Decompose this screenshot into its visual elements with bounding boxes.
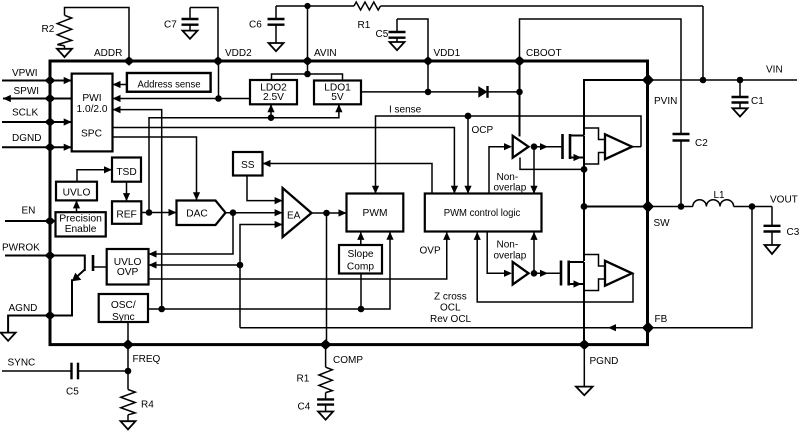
wire buffer bottom to SW node xyxy=(520,158,584,170)
svg-text:C6: C6 xyxy=(249,20,262,31)
ground below C7 xyxy=(183,31,198,39)
wire SS to EA xyxy=(247,176,283,205)
svg-text:UVLO: UVLO xyxy=(63,188,91,199)
svg-text:VIN: VIN xyxy=(766,65,783,76)
svg-text:OCL: OCL xyxy=(440,303,461,314)
capacitor C5 (top) xyxy=(376,19,429,61)
node buffer output xyxy=(531,143,538,150)
svg-text:Non-: Non- xyxy=(497,240,519,251)
svg-text:OVP: OVP xyxy=(117,267,139,278)
wire REF enable to LDO bottoms xyxy=(149,104,343,212)
svg-text:C7: C7 xyxy=(164,20,177,31)
wire buffer feedback to control (low) xyxy=(530,232,537,273)
PVIN pin xyxy=(642,74,677,107)
node VIN/rail xyxy=(700,77,707,84)
high-side driver: wire control to buffer xyxy=(489,147,504,194)
left pin SPWI (output arrow) xyxy=(3,86,72,103)
node AVIN internal junction xyxy=(304,71,311,78)
svg-text:REF: REF xyxy=(116,210,136,221)
svg-text:EN: EN xyxy=(22,206,36,217)
block DAC xyxy=(177,201,226,226)
amp U5 (low-side sense) xyxy=(605,261,632,286)
svg-text:VDD2: VDD2 xyxy=(225,48,252,59)
svg-text:SPC: SPC xyxy=(81,129,102,140)
capacitor C7 xyxy=(164,8,218,62)
svg-text:1.0/2.0: 1.0/2.0 xyxy=(77,104,108,115)
wire low source to PGND xyxy=(583,284,585,345)
svg-text:Z cross: Z cross xyxy=(434,291,467,302)
wire OSC vertical to PWI xyxy=(113,106,162,309)
svg-text:R1: R1 xyxy=(358,20,371,31)
transistor Q3 (low-side FET) xyxy=(561,261,584,288)
inductor L1 xyxy=(693,190,734,207)
svg-text:Address sense: Address sense xyxy=(138,80,201,91)
svg-text:C1: C1 xyxy=(751,96,764,107)
svg-text:5V: 5V xyxy=(331,92,344,103)
block UVLO OVP xyxy=(107,249,149,285)
resistor R2 xyxy=(42,8,130,62)
svg-text:SS: SS xyxy=(241,160,255,171)
block LDO2 2.5V xyxy=(250,80,297,104)
resistor R1 (comp) xyxy=(297,345,333,393)
pin PWROK xyxy=(2,243,56,261)
wire REF to DAC xyxy=(141,209,176,216)
svg-text:Comp: Comp xyxy=(347,262,375,273)
VDD1 pin xyxy=(423,48,461,66)
pin FB xyxy=(642,314,668,334)
svg-text:COMP: COMP xyxy=(333,355,363,366)
transistor Q1 (PWROK open drain) xyxy=(50,255,107,316)
svg-text:R2: R2 xyxy=(42,24,55,35)
left pin DGND xyxy=(2,133,72,152)
CBOOT pin and bootstrap rail to C2 xyxy=(514,19,682,134)
resistor R1 (top) xyxy=(308,2,704,31)
wire SW to L1 xyxy=(648,206,693,208)
wire DAC node to UVLO OVP xyxy=(149,213,234,258)
node SW/high source xyxy=(581,166,588,173)
wire OSC output to PWM xyxy=(148,232,394,313)
svg-text:VOUT: VOUT xyxy=(770,195,798,206)
block Precision Enable xyxy=(56,212,106,236)
wire staircase to sense amp (low) xyxy=(584,255,605,291)
non-overlap label (high) xyxy=(494,172,527,194)
block UVLO xyxy=(56,182,97,201)
wire LDO1 to diode to CBOOT xyxy=(361,61,478,95)
pin PGND xyxy=(578,339,618,367)
wire SPC bus B to DAC xyxy=(113,137,201,200)
svg-text:FB: FB xyxy=(655,314,668,325)
wire top rail down to VIN xyxy=(702,6,704,80)
wire Slope Comp bottom to OSC line xyxy=(360,274,362,310)
block TSD xyxy=(112,158,141,182)
svg-text:DAC: DAC xyxy=(186,209,208,220)
capacitor C2 xyxy=(673,134,709,207)
svg-text:CBOOT: CBOOT xyxy=(526,48,562,59)
svg-text:OSC/: OSC/ xyxy=(111,300,136,311)
ground below C6 xyxy=(269,43,284,51)
left pin SCLK xyxy=(2,108,72,127)
capacitor C4 xyxy=(298,393,335,413)
svg-text:AVIN: AVIN xyxy=(314,48,337,59)
svg-text:PWM control logic: PWM control logic xyxy=(444,208,521,219)
buffer U2 (high-side) xyxy=(513,136,529,158)
node top rail junction xyxy=(304,3,310,9)
svg-text:C2: C2 xyxy=(695,138,708,149)
wire VDD2 to PWI/LDO2 supply line xyxy=(113,61,251,102)
wire EA to PWM xyxy=(312,209,347,216)
svg-text:Slope: Slope xyxy=(347,249,373,260)
svg-text:PWM: PWM xyxy=(363,208,388,219)
amp U3 (high-side sense) xyxy=(605,134,632,159)
wire Z cross OCL Rev OCL xyxy=(430,232,633,325)
svg-text:ADDR: ADDR xyxy=(94,48,122,59)
chip outline xyxy=(50,61,648,345)
svg-text:C5: C5 xyxy=(376,29,389,40)
svg-text:R4: R4 xyxy=(141,400,154,411)
svg-text:R1: R1 xyxy=(297,374,310,385)
buffer U4 (low-side) xyxy=(513,262,529,285)
wire buffer feedback to control xyxy=(530,147,537,194)
svg-text:PWI: PWI xyxy=(82,93,101,104)
resistor R4 xyxy=(121,345,154,422)
pin EN xyxy=(5,206,56,226)
wire CBOOT vertical into driver xyxy=(519,61,521,136)
ADDR pin xyxy=(94,48,135,66)
svg-text:OVP: OVP xyxy=(420,246,441,257)
svg-text:DGND: DGND xyxy=(12,133,41,144)
svg-text:C4: C4 xyxy=(298,402,311,413)
svg-text:Enable: Enable xyxy=(65,224,97,235)
ground below C5 xyxy=(390,42,405,50)
wire FB input chain xyxy=(237,221,283,328)
svg-text:overlap: overlap xyxy=(494,183,527,194)
AVIN pin xyxy=(302,6,337,66)
node CBOOT/diode xyxy=(516,89,523,96)
left pin VPWI xyxy=(2,68,72,85)
svg-text:overlap: overlap xyxy=(494,251,527,262)
wire I sense line xyxy=(372,105,641,195)
svg-text:PWROK: PWROK xyxy=(2,243,40,254)
wire Slope Comp to PWM xyxy=(357,232,364,245)
node EA output xyxy=(323,210,330,217)
wire PVIN to high-side FET drain xyxy=(584,80,648,135)
svg-text:SYNC: SYNC xyxy=(8,358,36,369)
pin AGND with ground xyxy=(1,303,56,341)
wire SW node down xyxy=(583,169,585,261)
svg-text:C5: C5 xyxy=(66,387,79,398)
ground below C4 xyxy=(318,412,333,420)
wire sense amp output to I sense xyxy=(632,146,641,148)
node VOUT xyxy=(749,203,756,210)
wire SW line xyxy=(581,203,648,210)
wire SPC bus A to PWM control logic xyxy=(113,128,459,194)
wire FB feedback from VOUT xyxy=(648,207,752,328)
block SS xyxy=(233,152,263,176)
block Address sense xyxy=(127,73,211,92)
svg-text:2.5V: 2.5V xyxy=(263,92,284,103)
wire OSC to FREQ xyxy=(127,322,129,345)
svg-text:AGND: AGND xyxy=(9,303,38,314)
pin FREQ xyxy=(122,339,161,365)
svg-text:SCLK: SCLK xyxy=(12,108,38,119)
wire DAC to EA xyxy=(226,209,283,216)
non-overlap label (low) xyxy=(494,240,527,262)
node VIN/C1 xyxy=(737,77,744,84)
wire OCP into PWM control logic xyxy=(464,116,493,194)
block Slope Comp xyxy=(339,245,382,274)
node SW/C2 xyxy=(678,203,685,210)
svg-text:I sense: I sense xyxy=(389,105,422,116)
wire AVIN to LDO tops xyxy=(272,61,343,81)
wire UVLO to TSD xyxy=(77,166,112,182)
VIN line xyxy=(648,65,797,81)
svg-text:Sync: Sync xyxy=(112,312,135,323)
node FREQ/R4 xyxy=(125,368,132,375)
node I sense / OCP xyxy=(465,113,472,120)
wire staircase to sense amp (high) xyxy=(584,128,605,164)
capacitor C6 xyxy=(249,6,308,43)
wire buffer to gate xyxy=(534,143,563,150)
wire EA output down to COMP xyxy=(326,213,328,345)
pin SW xyxy=(642,200,670,229)
wire TSD to REF xyxy=(123,182,130,201)
svg-text:L1: L1 xyxy=(714,190,726,201)
svg-text:PVIN: PVIN xyxy=(654,96,677,107)
ground below R4 xyxy=(121,421,136,429)
wire L1 to VOUT xyxy=(734,206,772,208)
wire Precision Enable to UVLO xyxy=(73,200,80,212)
capacitor C3 xyxy=(764,207,800,246)
block PWM control logic xyxy=(425,194,542,232)
op-amp EA xyxy=(283,188,312,237)
capacitor C1 xyxy=(732,80,765,108)
ground below C1 xyxy=(733,108,748,116)
wire buffer to gate (low) xyxy=(534,270,561,277)
block OSC/Sync xyxy=(99,294,148,323)
wire Address sense to PWI xyxy=(113,81,127,88)
ground below C3 xyxy=(765,245,780,254)
svg-text:VDD1: VDD1 xyxy=(434,48,461,59)
block REF xyxy=(112,201,141,224)
svg-text:FREQ: FREQ xyxy=(133,354,161,365)
svg-text:TSD: TSD xyxy=(116,167,136,178)
block PWI 1.0/2.0 SPC xyxy=(72,74,113,152)
wire FB into chip xyxy=(240,324,648,331)
VDD2 pin xyxy=(213,48,253,66)
svg-text:SW: SW xyxy=(654,218,671,229)
svg-text:Non-: Non- xyxy=(497,172,519,183)
svg-text:EA: EA xyxy=(287,211,301,222)
node buffer output low xyxy=(531,270,538,277)
svg-text:OCP: OCP xyxy=(472,125,494,136)
svg-text:SPWI: SPWI xyxy=(14,86,40,97)
diode D1 xyxy=(478,86,519,98)
wire FB node to UVLO OVP xyxy=(149,261,241,268)
pin COMP xyxy=(320,339,364,366)
ground below PGND xyxy=(576,345,593,396)
ground below R2 xyxy=(57,46,72,57)
svg-text:Precision: Precision xyxy=(59,214,102,225)
wire OVP line xyxy=(149,232,451,279)
pin SYNC and C5 coupling xyxy=(2,358,128,398)
low-side driver: wire control to buffer xyxy=(487,232,504,274)
wire PWM control logic to SS xyxy=(263,160,433,194)
node DAC output xyxy=(230,209,237,216)
block PWM xyxy=(347,194,404,232)
svg-text:VPWI: VPWI xyxy=(12,68,38,79)
block LDO1 5V xyxy=(314,81,361,105)
transistor Q2 (high-side FET) xyxy=(563,134,585,169)
svg-text:PGND: PGND xyxy=(590,356,619,367)
svg-text:C3: C3 xyxy=(787,227,800,238)
svg-text:Rev OCL: Rev OCL xyxy=(430,314,472,325)
